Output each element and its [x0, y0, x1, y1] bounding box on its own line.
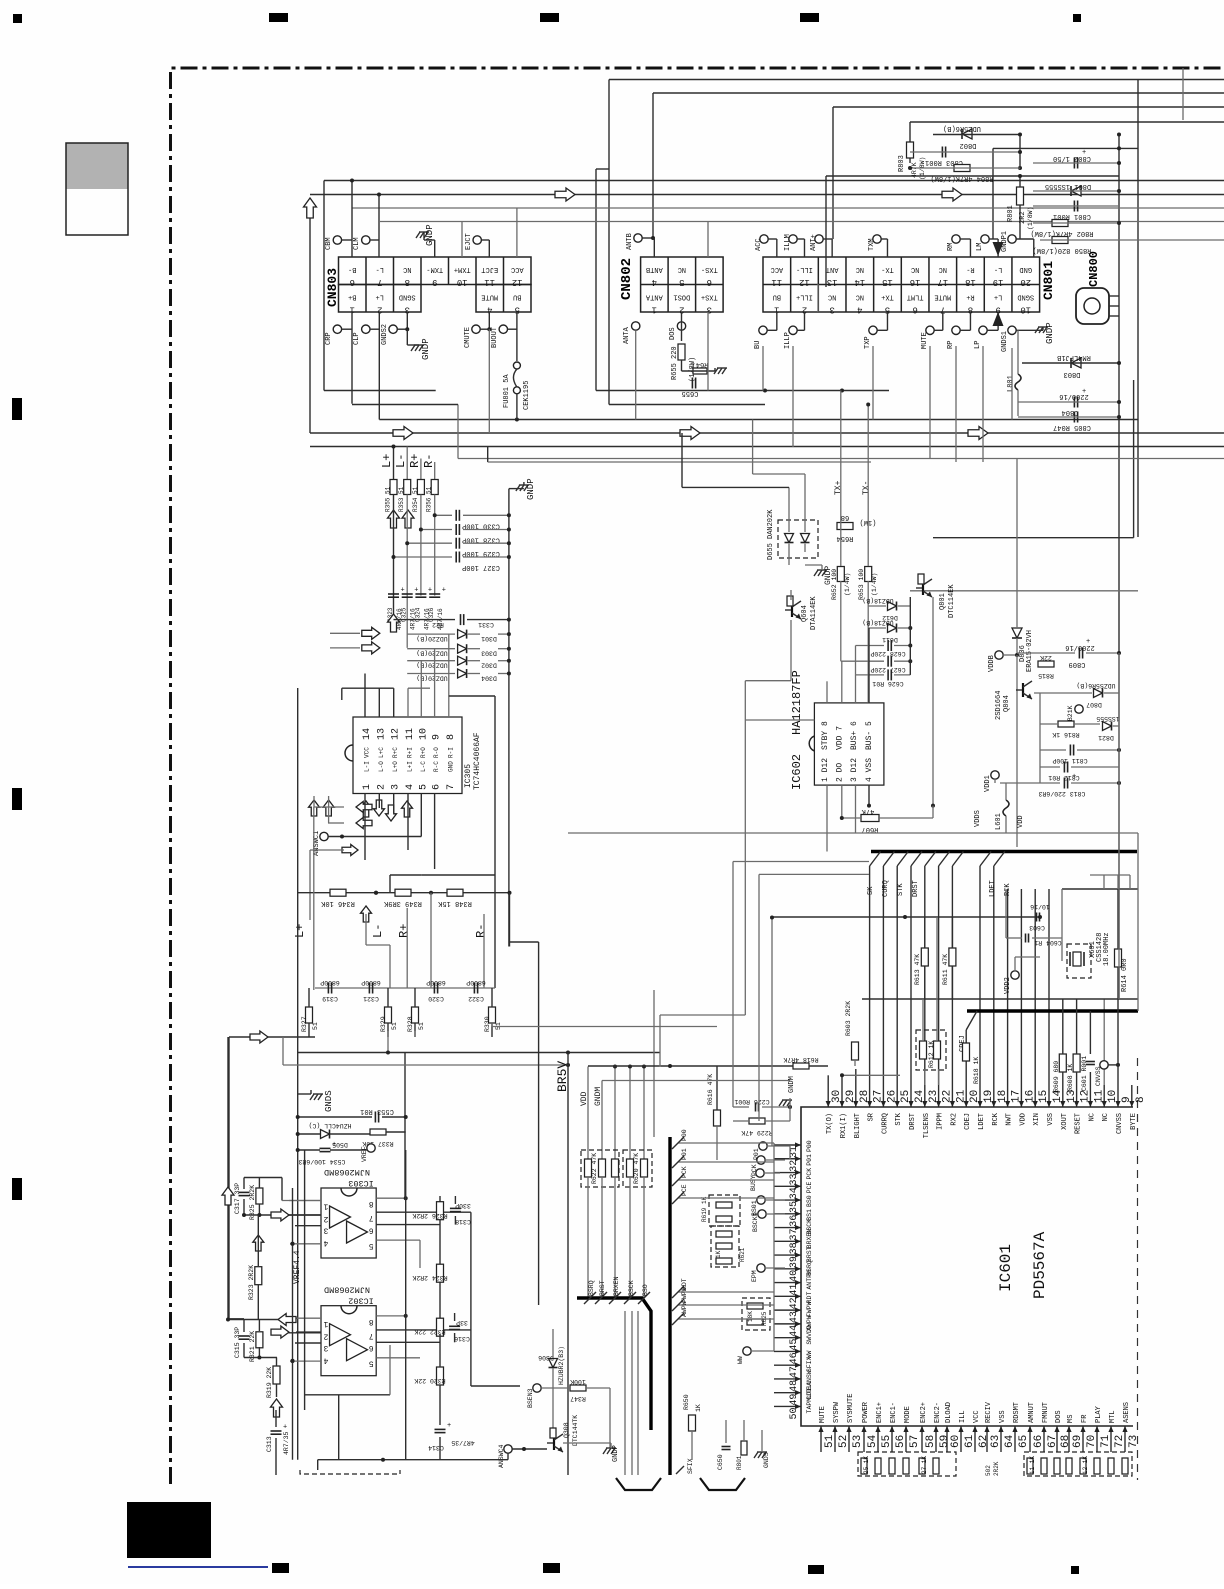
wire row y=851.5 thick: [871, 850, 1137, 853]
svg-text:D611: D611: [882, 636, 898, 643]
IC601 pin 49 CDILL: [774, 1392, 801, 1394]
svg-text:4: 4: [652, 277, 657, 287]
wire IC302 feedback loop: [305, 1394, 390, 1396]
registration mark bottom x=272: [272, 1563, 289, 1573]
wire top bus y=93: [653, 92, 1224, 94]
wire CN803 pin4 down: [488, 312, 490, 329]
svg-text:6: 6: [350, 277, 355, 287]
IC601 pin 28 BLIGHT: [855, 1085, 857, 1107]
svg-text:ANTA: ANTA: [645, 293, 663, 301]
resistor R616 47K: [714, 1110, 721, 1126]
test point BSCK1: [758, 1210, 766, 1218]
wire verticals right of BR5V: [653, 990, 655, 1137]
svg-text:TC74HC4066AF: TC74HC4066AF: [473, 732, 482, 790]
svg-text:ACC: ACC: [511, 265, 524, 273]
IC601 pin 47 SFIX: [774, 1364, 801, 1366]
diode D821 1SS555: [1103, 722, 1112, 731]
IC302 opamp B: [347, 1339, 368, 1361]
dashed resistor box R620 47K: [623, 1150, 652, 1187]
diode pair D655 DAN202K dashed: [778, 520, 818, 558]
IC601 pin 55 ENC1+: [877, 1426, 879, 1452]
registration mark bottom right: [1071, 1566, 1079, 1574]
IC601 pin 71 PLAY: [1096, 1426, 1098, 1452]
test point CNVSS: [1100, 1061, 1108, 1069]
svg-text:ILLM: ILLM: [784, 234, 792, 251]
wires below IC305: [364, 794, 366, 861]
svg-text:R-C: R-C: [433, 761, 440, 772]
IC601 pin 44 AWPW: [774, 1323, 801, 1325]
wire bundle verticals center: [587, 1067, 589, 1160]
svg-text:R356 51: R356 51: [426, 486, 433, 512]
registration mark left y=790: [12, 788, 22, 810]
svg-text:D301: D301: [481, 635, 497, 642]
svg-text:1: 1: [323, 1319, 328, 1328]
svg-text:5: 5: [679, 277, 684, 287]
svg-text:18K: 18K: [747, 1311, 754, 1322]
test point GNDS2: [389, 325, 397, 333]
svg-text:C805 R047: C805 R047: [1053, 423, 1091, 431]
wire corner to D655 row: [681, 433, 683, 487]
svg-text:R647: R647: [692, 360, 709, 368]
vertical chain R326-R324-R322: [439, 1196, 441, 1320]
svg-text:MUTE: MUTE: [934, 293, 951, 301]
wire left rail x=228: [227, 1037, 229, 1319]
svg-text:73: 73: [1128, 1435, 1140, 1448]
svg-text:3: 3: [323, 1226, 328, 1235]
svg-text:TXM: TXM: [868, 238, 876, 251]
resistor R603 2R2K: [852, 1042, 859, 1060]
wire loop from pin5 down: [390, 874, 421, 876]
diode D612 UDZ18(B): [888, 602, 897, 611]
svg-text:19: 19: [993, 277, 1004, 287]
test point BSEN3: [533, 1384, 541, 1392]
svg-text:SGND: SGND: [1017, 293, 1034, 301]
thick vertical bus x=670: [668, 1137, 671, 1475]
resistor R354 51: [417, 480, 424, 495]
capacitor C803 R001: [941, 147, 943, 158]
svg-text:D801 1SS555: D801 1SS555: [1045, 182, 1091, 190]
wire GNDP1 to pin20: [1016, 238, 1034, 240]
IC601 pin 32 P01: [774, 1158, 801, 1160]
test point VDD2: [1011, 971, 1019, 979]
wire xtal rails: [1005, 889, 1007, 938]
svg-text:GND: GND: [1019, 265, 1032, 273]
svg-text:R320 22K: R320 22K: [414, 1377, 445, 1384]
svg-text:69: 69: [1072, 1435, 1084, 1448]
svg-text:11: 11: [405, 728, 416, 740]
capacitor C330 100P: [435, 514, 452, 516]
svg-text:6: 6: [369, 1226, 374, 1235]
svg-text:DTC114EK: DTC114EK: [948, 584, 956, 618]
resistor R327 51: [306, 1007, 313, 1023]
flow arrow right small: [342, 845, 358, 856]
IC601 pin 64 VSS: [1000, 1426, 1002, 1452]
svg-text:R346 10K: R346 10K: [320, 899, 354, 907]
svg-text:R653 100: R653 100: [858, 569, 865, 600]
svg-text:BUOUT: BUOUT: [491, 327, 499, 348]
node junction: [1117, 133, 1121, 137]
svg-text:5: 5: [418, 784, 429, 790]
wire row y=833: [568, 832, 1138, 834]
svg-text:R-: R-: [474, 924, 488, 938]
svg-text:PCK: PCK: [681, 1166, 688, 1178]
capacitor C329 100P: [407, 542, 452, 544]
svg-text:GND: GND: [447, 761, 454, 772]
svg-text:+: +: [1086, 638, 1090, 646]
wire BSRQ bundle from top: [614, 1067, 616, 1160]
wire rail x=470.9: [470, 1212, 472, 1386]
page cut dashed line right of IC601: [1137, 1058, 1139, 1480]
svg-text:(1/4W): (1/4W): [871, 573, 878, 596]
svg-text:R348 15K: R348 15K: [437, 899, 471, 907]
capacitor C813 220/6R3: [1063, 778, 1065, 789]
IC601 pin 54 POWER: [863, 1426, 865, 1452]
svg-text:43: 43: [789, 1311, 800, 1323]
svg-text:DLOAD: DLOAD: [945, 1402, 953, 1423]
svg-text:3 D12: 3 D12: [850, 758, 859, 782]
svg-text:i1 1K: i1 1K: [1029, 1456, 1036, 1474]
ground GNDS bottom: [757, 1451, 767, 1453]
svg-text:ANT+: ANT+: [810, 234, 818, 251]
svg-text:IC602: IC602: [790, 754, 804, 790]
test point ILLM: [789, 235, 797, 243]
wire bus y=404.5 left: [352, 404, 458, 406]
wire CN803 pin6 drop: [351, 181, 353, 258]
wire mid bus y=148.4: [993, 147, 1138, 149]
svg-text:Q804: Q804: [1003, 695, 1011, 712]
svg-text:D302: D302: [481, 662, 497, 669]
svg-text:C601 R001: C601 R001: [1081, 1056, 1088, 1091]
svg-text:LDET: LDET: [989, 880, 997, 897]
svg-text:35: 35: [789, 1201, 800, 1213]
svg-text:C316: C316: [454, 1335, 470, 1342]
svg-text:CN800: CN800: [1087, 251, 1101, 287]
svg-text:R+: R+: [408, 454, 422, 468]
ground GNDM at IC601 corner: [782, 1099, 792, 1101]
svg-text:1K: 1K: [715, 1250, 722, 1258]
dashed box R612 1K: [916, 1030, 946, 1070]
svg-text:IPPM: IPPM: [937, 1113, 945, 1130]
svg-text:MUTE: MUTE: [921, 332, 929, 349]
svg-text:VREF4.4: VREF4.4: [293, 1250, 302, 1284]
svg-text:4R7/35: 4R7/35: [451, 1439, 475, 1446]
test point BS01: [757, 1196, 765, 1204]
IC601 pin 36 BS1: [774, 1213, 801, 1215]
wire bus y=446.5: [310, 446, 1224, 448]
resistor R802 4R7K(1/8W): [1052, 220, 1068, 227]
IC IC302 NJM2068MD body: [321, 1306, 376, 1376]
svg-text:UDZ18(B): UDZ18(B): [862, 597, 893, 604]
capacitor C322 6800P: [473, 983, 475, 994]
svg-text:R618 4R7K: R618 4R7K: [783, 1056, 818, 1063]
svg-text:R654: R654: [837, 534, 854, 542]
wire CN803 pin7 drop: [378, 195, 380, 258]
svg-text:P01: P01: [806, 1154, 813, 1166]
resistor R328 51: [412, 1007, 419, 1023]
svg-text:R603 2R2K: R603 2R2K: [845, 1001, 852, 1036]
wire left rail x=324: [323, 181, 325, 391]
svg-text:56: 56: [895, 1435, 907, 1448]
svg-text:ANSWC4: ANSWC4: [498, 1444, 505, 1468]
svg-text:L-: L-: [994, 265, 1002, 273]
IC601 pin 70 FR: [1082, 1426, 1084, 1452]
svg-text:R-I: R-I: [447, 747, 454, 758]
svg-text:BSO: BSO: [642, 1284, 649, 1296]
svg-text:MTL: MTL: [1109, 1410, 1117, 1423]
svg-text:46: 46: [789, 1352, 800, 1364]
flow arrow right: [942, 188, 962, 201]
wire row y=917: [772, 916, 1040, 918]
IC601 pin 18 RCK: [993, 1085, 995, 1107]
test point CMUTE: [472, 325, 480, 333]
pin verticals from row 889: [1007, 889, 1009, 1085]
IC601 pin 50 TAPMUTE: [774, 1405, 801, 1407]
svg-text:R347: R347: [570, 1395, 586, 1402]
svg-text:R319 22K: R319 22K: [266, 1367, 273, 1398]
resistor R650 1K: [689, 1415, 696, 1431]
svg-text:ANTPM: ANTPM: [806, 1270, 813, 1290]
svg-text:C319: C319: [322, 995, 338, 1002]
wire CN802 pin3 down: [707, 312, 709, 391]
svg-text:4: 4: [405, 784, 416, 790]
wire VREF rail: [292, 1188, 294, 1460]
svg-text:44: 44: [789, 1325, 800, 1337]
break mark bottom 1: [616, 1478, 661, 1490]
IC601 pin 11 NC: [1089, 1085, 1091, 1107]
svg-text:R609 680: R609 680: [1053, 1061, 1060, 1092]
svg-text:D304: D304: [481, 675, 497, 682]
capacitor C317 33P: [239, 1191, 250, 1193]
wire IC602 left feeds: [732, 862, 734, 1108]
flow arrow right: [680, 427, 700, 440]
svg-text:NC: NC: [939, 265, 947, 273]
svg-text:L+: L+: [994, 293, 1002, 301]
svg-text:R619 1K: R619 1K: [701, 1196, 708, 1222]
wire EJCT to pin11: [481, 239, 489, 241]
svg-text:C650: C650: [717, 1454, 724, 1470]
svg-text:BRST: BRST: [806, 1246, 813, 1262]
svg-text:UDZ20(B): UDZ20(B): [416, 650, 447, 657]
svg-text:R+: R+: [397, 924, 411, 938]
svg-text:TX+: TX+: [881, 293, 894, 301]
svg-text:R+C: R+C: [392, 747, 399, 758]
test point TXM: [873, 235, 881, 243]
svg-text:65: 65: [1018, 1435, 1030, 1448]
svg-text:ILL-: ILL-: [796, 265, 813, 273]
IC601 pin 21 RX2: [951, 1085, 953, 1107]
svg-text:5: 5: [369, 1359, 374, 1368]
IC601 pin 9 CNVSS: [1117, 1085, 1119, 1107]
svg-text:DOS: DOS: [669, 327, 677, 340]
svg-text:47: 47: [789, 1366, 800, 1378]
resistor R850 820(1/8W): [1052, 237, 1068, 244]
svg-text:12: 12: [799, 277, 810, 287]
IC601 pin 37 BSCK: [774, 1227, 801, 1229]
svg-text:GNDP: GNDP: [612, 1445, 620, 1462]
test point PCK: [757, 1156, 765, 1164]
registration mark bottom x=543: [543, 1563, 560, 1573]
svg-text:R815: R815: [1038, 672, 1054, 679]
svg-text:R354 51: R354 51: [412, 486, 419, 512]
svg-text:HZUBR2(B3): HZUBR2(B3): [558, 1346, 565, 1385]
svg-text:40: 40: [789, 1270, 800, 1282]
dashed box R621: [711, 1226, 739, 1267]
resistor R349 3R9K: [395, 889, 411, 896]
svg-text:15: 15: [882, 277, 893, 287]
svg-text:ASENS: ASENS: [1123, 1402, 1131, 1423]
capacitor C802 1/50 polarized: [1073, 158, 1075, 169]
svg-text:VDD: VDD: [1017, 815, 1025, 828]
IC601 pin 51 MUTE: [820, 1426, 822, 1452]
fuse FU801 5A CEK1195: [513, 362, 520, 369]
svg-text:C811 100P: C811 100P: [1052, 757, 1087, 764]
svg-text:BSEN3: BSEN3: [527, 1388, 534, 1408]
svg-text:STK: STK: [897, 883, 905, 896]
wire right vertical x=1119: [1118, 134, 1120, 999]
svg-text:GNDS: GNDS: [763, 1452, 770, 1468]
registration mark top x=800: [800, 13, 819, 22]
svg-text:CMUTE: CMUTE: [464, 327, 472, 348]
svg-text:C320: C320: [428, 995, 444, 1002]
svg-text:FWPW: FWPW: [806, 1301, 813, 1317]
svg-text:PCK: PCK: [806, 1168, 813, 1180]
wire bus y=390.5 left: [324, 390, 436, 392]
svg-text:+: +: [1082, 149, 1086, 157]
test point MUTE: [926, 326, 934, 334]
capacitor C321 6800P: [368, 983, 370, 994]
IC601 pin 24 DRST: [910, 1085, 912, 1107]
resistor R320 22K: [437, 1367, 444, 1385]
test point VREF: [367, 1144, 375, 1152]
IC601 pin 25 STK: [896, 1085, 898, 1107]
svg-text:53: 53: [852, 1435, 864, 1448]
registration mark bottom x=808: [808, 1565, 824, 1574]
resistor R319 22K: [273, 1366, 280, 1384]
diagonal net P00: [678, 1142, 774, 1144]
svg-text:2SD1664: 2SD1664: [995, 691, 1003, 720]
resistor R348 15K: [447, 889, 463, 896]
svg-text:CN801: CN801: [1041, 261, 1056, 300]
capacitor C320 6800P: [433, 983, 435, 994]
test point CLP: [362, 325, 370, 333]
svg-text:3: 3: [391, 784, 402, 790]
svg-text:63: 63: [990, 1435, 1002, 1448]
wires IC305 top pins up: [342, 687, 394, 689]
diode D807 UDZ5R6(B): [1094, 689, 1103, 698]
wire BR5V rail: [567, 1053, 569, 1476]
svg-text:L+O: L+O: [392, 761, 399, 772]
svg-text:VDD 7: VDD 7: [836, 726, 845, 750]
diode D803 RM4LFJ1B: [1071, 358, 1081, 368]
svg-text:DOS1: DOS1: [673, 293, 690, 301]
IC601 pin 52 SYSPW: [834, 1426, 836, 1452]
svg-text:1K: 1K: [695, 1404, 702, 1412]
capacitor electrolytic C325 4R7/16: [402, 593, 413, 595]
IC601 pin 34 PCE: [774, 1185, 801, 1187]
wire corner x=660: [659, 1015, 661, 1067]
wire CN803 pin10 drop from top: [461, 222, 463, 258]
wire right cluster rail: [1019, 135, 1021, 169]
diagonal net PCK: [678, 1179, 774, 1181]
wire CN803 pin1 down: [351, 312, 353, 404]
svg-text:41: 41: [789, 1284, 800, 1296]
svg-text:47K: 47K: [861, 807, 874, 815]
svg-text:+: +: [283, 1424, 287, 1432]
svg-text:TXM-: TXM-: [426, 265, 443, 273]
svg-text:R328: R328: [407, 1016, 414, 1032]
IC601 pin 29 RX1(I): [841, 1085, 843, 1107]
svg-text:ANTB: ANTB: [646, 265, 663, 273]
IC601 pin 15 XIN: [1034, 1085, 1036, 1107]
svg-text:BS0: BS0: [806, 1195, 813, 1207]
svg-text:71: 71: [1100, 1434, 1112, 1448]
svg-text:CLP: CLP: [353, 332, 361, 345]
test point P01: [759, 1142, 767, 1150]
svg-text:49: 49: [789, 1394, 800, 1406]
resistor R803 4R7K(1/8W): [907, 142, 914, 158]
svg-text:VCC: VCC: [364, 747, 371, 758]
svg-text:GNDP: GNDP: [526, 478, 536, 500]
wire IC305 pin8 loop right: [448, 634, 450, 692]
blue underline bottom-left: [128, 1566, 268, 1568]
svg-text:68: 68: [841, 513, 849, 521]
IC IC305 TC74HC4066AF body: [353, 717, 462, 794]
svg-text:GNDP: GNDP: [1045, 322, 1055, 344]
svg-text:48: 48: [789, 1380, 800, 1392]
svg-text:NC: NC: [403, 265, 411, 273]
capacitor C628 220P: [887, 640, 889, 651]
IC601 pin 42 RDT: [774, 1295, 801, 1297]
IC601 pin 12 RESET: [1076, 1085, 1078, 1107]
connector CN800 body: [1076, 288, 1109, 324]
svg-text:GNDS: GNDS: [324, 1090, 334, 1112]
svg-text:VSS: VSS: [1047, 1113, 1055, 1126]
IC601 pin 62 VCC: [974, 1426, 976, 1452]
test point CBM: [333, 236, 341, 244]
resistor R804 4R7K(1/8W): [954, 165, 970, 172]
test point TXP: [869, 326, 877, 334]
svg-text:L-C: L-C: [420, 761, 427, 772]
diode D802 UDZ5R6(B): [962, 129, 972, 139]
svg-text:R612 1K: R612 1K: [928, 1041, 935, 1068]
svg-text:2 DO: 2 DO: [836, 763, 845, 782]
black ink patch bottom-left: [127, 1502, 211, 1558]
wire loop band y=1052: [298, 1052, 660, 1054]
resistor R355 51: [390, 480, 397, 495]
svg-text:6800P: 6800P: [466, 979, 486, 986]
svg-text:7: 7: [377, 277, 382, 287]
flow arrow up L+: [388, 510, 400, 528]
svg-text:SYSMUTE: SYSMUTE: [847, 1394, 855, 1423]
svg-text:R620 47K: R620 47K: [633, 1153, 640, 1184]
pin stubs top 30 29 28: [827, 1075, 829, 1085]
svg-text:UDZ5R6(B): UDZ5R6(B): [943, 124, 981, 132]
svg-text:CEK1195: CEK1195: [523, 381, 531, 410]
svg-text:VSS: VSS: [999, 1410, 1007, 1423]
svg-text:42: 42: [789, 1297, 800, 1309]
resistor R801 2R2 (1/8W): [1017, 187, 1024, 205]
wire top bus y=107: [833, 106, 1224, 108]
svg-text:CDEJ: CDEJ: [964, 1113, 972, 1130]
svg-text:R327: R327: [301, 1016, 308, 1032]
svg-text:D303: D303: [481, 650, 497, 657]
svg-text:R+: R+: [966, 293, 974, 301]
svg-text:VREF: VREF: [361, 1146, 368, 1162]
svg-text:R803: R803: [898, 155, 906, 172]
resistor R326 2R2K: [437, 1202, 444, 1220]
svg-text:R323 2R2K: R323 2R2K: [248, 1265, 255, 1300]
svg-text:C318: C318: [455, 1218, 471, 1225]
